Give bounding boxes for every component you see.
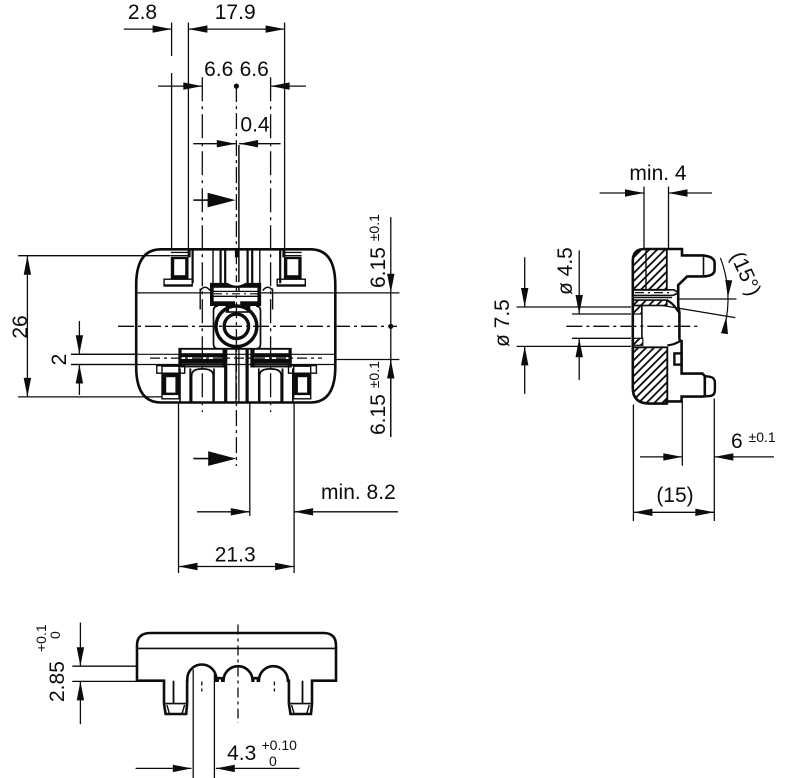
bar feature line lower (2mm)	[71, 364, 335, 366]
bracket slot lines	[210, 290, 261, 292]
svg-text:+0.10: +0.10	[262, 737, 298, 753]
front view horizontal centerline	[118, 325, 397, 327]
upper slot feature line	[137, 292, 210, 294]
outer circle	[216, 306, 257, 347]
side view centerline	[566, 325, 697, 327]
hatch band upper-mid	[633, 300, 667, 305]
svg-text:21.3: 21.3	[215, 543, 256, 566]
lower bar	[178, 348, 291, 350]
auxiliary centerline right (6.6)	[270, 77, 272, 412]
side view top pin tip line	[703, 256, 705, 277]
latch bottom-right	[289, 366, 317, 374]
notch on flange	[674, 353, 681, 364]
rail dome arcs upper	[200, 287, 210, 290]
angle arc	[720, 258, 728, 327]
bracket lower band	[210, 301, 235, 306]
funnel lower shoulder	[667, 341, 681, 345]
side view bottom pin tip	[705, 376, 715, 396]
hatch sliver upper	[633, 306, 642, 315]
svg-text:ø 7.5: ø 7.5	[491, 299, 514, 347]
upper interior lines	[192, 251, 194, 284]
lower legs right	[292, 368, 294, 401]
funnel upper curve	[667, 300, 680, 312]
svg-text:2: 2	[48, 354, 71, 366]
svg-text:0: 0	[47, 631, 63, 639]
svg-text:2.8: 2.8	[128, 1, 157, 24]
latch top-right	[284, 252, 302, 253]
svg-text:ø 4.5: ø 4.5	[554, 247, 577, 295]
arch1 centerline stub	[201, 682, 203, 692]
bottom view body	[137, 633, 336, 714]
svg-text:0.4: 0.4	[240, 113, 270, 136]
front view vertical centerline	[235, 86, 237, 466]
auxiliary centerline left (6.6)	[201, 77, 203, 412]
hatch sliver lower	[633, 338, 643, 345]
svg-text:0: 0	[269, 753, 277, 769]
section arrow lower	[193, 458, 210, 460]
pocket wall right	[256, 306, 261, 349]
svg-text:4.3: 4.3	[227, 742, 256, 765]
hole far wall	[641, 306, 643, 339]
bottom view inner step line	[137, 647, 336, 649]
svg-text:17.9: 17.9	[215, 1, 256, 24]
bar feature line upper (2mm)	[71, 353, 335, 355]
upper bracket	[210, 283, 261, 288]
section arrow upper	[193, 199, 209, 201]
svg-text:2.85: 2.85	[46, 661, 69, 702]
pocket wall left	[214, 306, 219, 349]
left leg inner lines	[173, 681, 175, 704]
right leg inner lines	[302, 681, 304, 704]
angle line oblique	[663, 306, 735, 318]
inner circle	[224, 314, 248, 338]
bracket step	[227, 306, 250, 312]
hatched block bottom	[633, 347, 668, 403]
latch bottom-left	[157, 366, 185, 374]
svg-text:26: 26	[9, 315, 32, 338]
lower legs left	[179, 368, 181, 401]
svg-text:6.6: 6.6	[204, 58, 233, 81]
angle line horizontal	[677, 298, 737, 300]
front view body outline	[136, 249, 335, 402]
bar end caps	[178, 349, 181, 368]
bar slot dashed line	[150, 357, 322, 359]
svg-text:min. 8.2: min. 8.2	[321, 481, 396, 504]
bottom view centerline	[237, 625, 239, 723]
svg-text:min. 4: min. 4	[629, 162, 687, 185]
svg-text:6.6: 6.6	[240, 58, 269, 81]
hatched block top	[633, 249, 667, 290]
latch slot side view	[633, 289, 674, 291]
lower channel walls	[224, 348, 227, 402]
side view silhouette	[633, 249, 715, 404]
prong hole extension lines (4.3)	[192, 670, 194, 778]
top edge teeth	[188, 250, 191, 257]
arch3 centerline stub	[273, 682, 275, 692]
svg-text:(15): (15)	[656, 484, 693, 507]
latch top-left	[171, 252, 189, 253]
